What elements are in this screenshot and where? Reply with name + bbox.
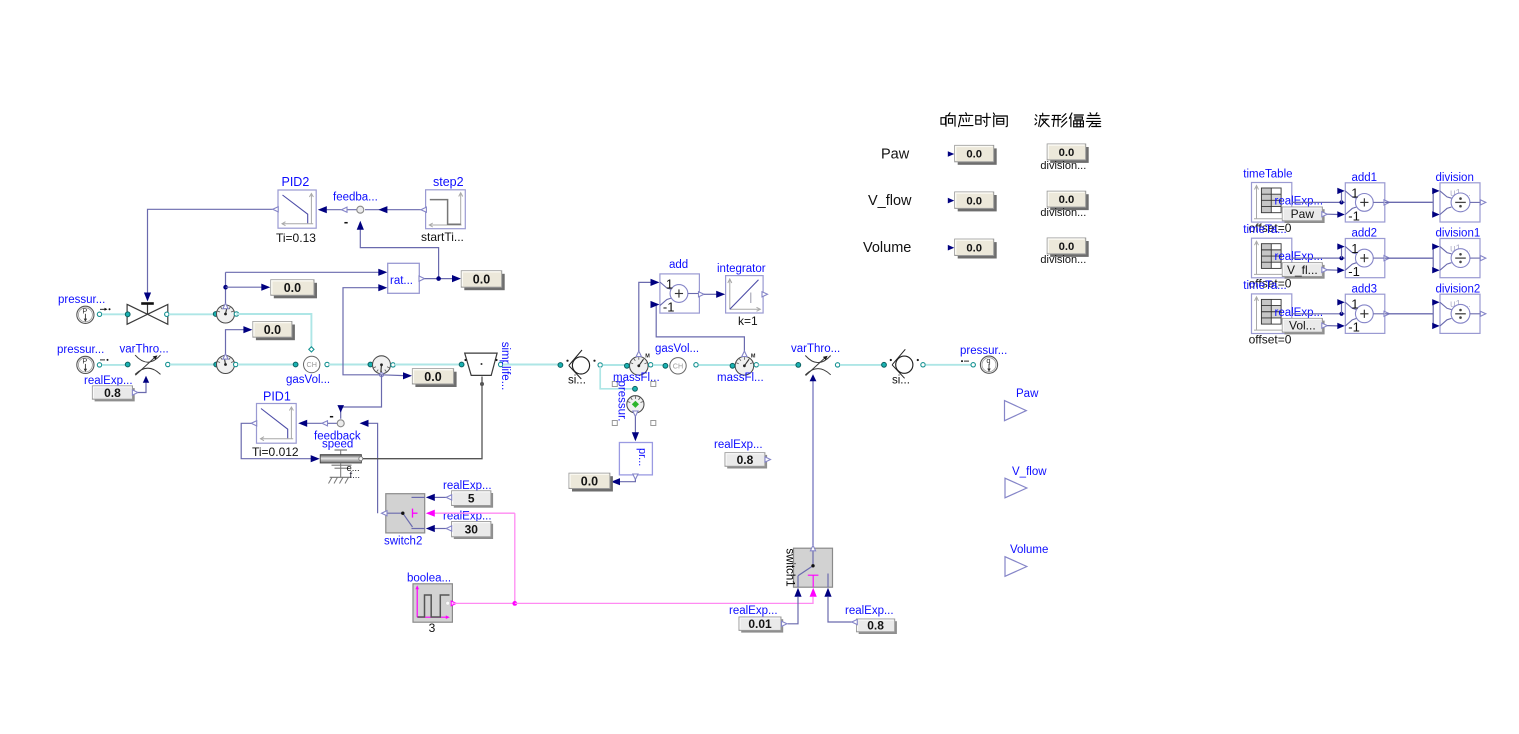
shaft speed to simplife <box>363 377 482 459</box>
port varThroL right <box>166 362 170 366</box>
wire pr to display5 <box>619 480 635 482</box>
svg-text:speed: speed <box>322 439 353 451</box>
wire sensor3 to feedback2 <box>341 375 382 419</box>
svg-text:realExp...: realExp... <box>1275 251 1324 263</box>
op block PID2 <box>278 190 316 228</box>
port division1 output <box>1480 256 1486 261</box>
arrow division2 in2 <box>1432 323 1440 329</box>
wire junction to add1 in1 <box>1341 191 1343 203</box>
port pr output bottom <box>633 474 638 480</box>
wire sensor1 up-branch <box>225 272 227 303</box>
feedback junction feedback1 <box>357 206 364 213</box>
op block PID1 <box>257 404 297 444</box>
check valve si2 <box>896 356 913 373</box>
junction boolean <box>512 601 517 606</box>
mass flow sensor massFl2 <box>735 357 754 376</box>
port name box output row2 <box>1322 267 1328 272</box>
arrow division1 in2 <box>1432 267 1440 273</box>
svg-text:realExp...: realExp... <box>443 511 492 523</box>
arrow division in2 <box>1432 211 1440 217</box>
port si2 left <box>882 362 887 367</box>
wire boolean to switch2 (magenta) <box>434 512 515 514</box>
svg-text:pressur...: pressur... <box>57 344 104 356</box>
display deviation Paw <box>1050 147 1089 163</box>
display response time Volume <box>958 242 997 258</box>
speed support top <box>340 450 342 454</box>
svg-text:k=1: k=1 <box>738 314 758 328</box>
arrow into response display V_flow <box>948 198 955 204</box>
port valve right <box>165 312 169 316</box>
port PID2 output (left) <box>273 207 279 212</box>
port sensor2 right <box>234 362 238 366</box>
svg-text:division: division <box>1436 172 1474 184</box>
port massFl2 left <box>730 363 735 368</box>
pressure source pressur1 <box>77 306 94 323</box>
svg-text:0.0: 0.0 <box>966 195 982 207</box>
port varThroR left <box>796 363 801 368</box>
output connector Volume <box>1005 557 1027 577</box>
svg-text:pressur...: pressur... <box>960 345 1007 357</box>
svg-text:0.8: 0.8 <box>104 386 121 400</box>
wire add3 to division2 <box>1385 313 1433 315</box>
port realExp001 output <box>782 621 788 626</box>
port feedback2 output <box>322 421 328 426</box>
display4 0.0 <box>464 274 504 290</box>
port step2 output (left) <box>421 207 427 212</box>
svg-text:integrator: integrator <box>717 263 766 275</box>
port pressur1 outlet <box>97 312 101 316</box>
port rat output <box>419 276 425 281</box>
svg-text:switch1: switch1 <box>784 548 796 586</box>
wire add1 to division <box>1385 201 1433 203</box>
junction timeTable out row2 <box>1339 256 1343 260</box>
wire feedback1 to PID2 <box>321 209 357 211</box>
port sensor1 right <box>234 312 238 316</box>
add block add1 <box>1345 183 1385 222</box>
valve (on/off) symbol <box>127 304 147 324</box>
svg-text:division...: division... <box>1040 254 1086 266</box>
stub split at division1 <box>1432 247 1434 271</box>
display realExp001 <box>741 619 783 632</box>
port massFl1 top output <box>636 351 641 357</box>
division block division <box>1440 183 1480 222</box>
svg-text:realExp...: realExp... <box>1275 195 1324 207</box>
svg-text:pressur.: pressur. <box>616 381 628 422</box>
svg-text:PID1: PID1 <box>263 390 291 404</box>
svg-text:timeTable: timeTable <box>1243 168 1292 180</box>
wire fluid pressur2-varThroL <box>102 364 126 366</box>
header text 波形偏差 <box>1035 113 1049 127</box>
wire fluid sensor3-simplife <box>395 364 460 366</box>
svg-text:0.0: 0.0 <box>473 273 490 287</box>
display deviation Volume <box>1050 241 1089 257</box>
switch block switch1 <box>794 548 833 587</box>
port sensor2 left <box>214 362 219 367</box>
display name box V_fl... <box>1285 265 1325 279</box>
svg-text:gasVol...: gasVol... <box>286 374 330 386</box>
wire fluid massFl1-gasVol2 <box>653 364 668 366</box>
svg-text:timeTa...: timeTa... <box>1243 224 1286 236</box>
svg-text:V_fl...: V_fl... <box>1287 263 1318 277</box>
gray handle square 1 <box>612 382 617 387</box>
port realExp08R output <box>852 619 858 624</box>
svg-text:M: M <box>751 353 756 359</box>
svg-text:CH: CH <box>673 361 683 370</box>
display realExpL 0.8 <box>95 388 135 401</box>
svg-text:division...: division... <box>1040 207 1086 219</box>
display deviation V_flow <box>1050 194 1089 210</box>
junction timeTable out row3 <box>1339 312 1343 316</box>
wire junction to add3 in1 <box>1341 302 1343 314</box>
svg-text:division...: division... <box>1040 160 1086 172</box>
svg-text:division2: division2 <box>1436 283 1481 295</box>
port switch1 output top <box>810 545 815 551</box>
svg-text:f...: f... <box>350 470 361 481</box>
display5 0.0 <box>572 476 613 491</box>
wire name box to add3 in2 <box>1327 325 1338 327</box>
svg-text:0.8: 0.8 <box>737 453 754 467</box>
port si1 right <box>598 363 602 367</box>
wire boolean to switch1 (magenta) <box>515 597 813 603</box>
port gasVol2 left <box>663 363 668 368</box>
svg-text:simplife...: simplife... <box>499 342 511 391</box>
svg-text:si...: si... <box>892 375 910 387</box>
port pressure sensor bottom output <box>633 411 638 417</box>
port gasVol1 left <box>293 362 298 367</box>
svg-text:q: q <box>986 356 990 365</box>
svg-text:3: 3 <box>429 621 436 635</box>
wire sensor2 to display2 <box>226 330 245 354</box>
gray handle square 4 <box>651 421 656 426</box>
time table block row3 <box>1252 294 1292 334</box>
gray handle square 2 <box>651 382 656 387</box>
time table block row1 <box>1252 183 1292 223</box>
svg-text:V_flow: V_flow <box>1012 466 1047 478</box>
svg-text:realExp...: realExp... <box>729 605 778 617</box>
svg-text:Paw: Paw <box>881 146 910 162</box>
wire fluid varThroL-sensor2 <box>170 364 214 366</box>
svg-text:0.8: 0.8 <box>867 619 884 633</box>
port sensor3 left <box>368 362 373 367</box>
gauge sensor1 <box>217 305 235 323</box>
wire sensor1 to display1 <box>226 286 262 288</box>
svg-text:V_flow: V_flow <box>868 193 912 209</box>
svg-text:1: 1 <box>666 276 673 291</box>
wire switch2 to feedback2 <box>364 423 378 513</box>
arrow into response display Paw <box>948 151 955 157</box>
arrow switch1 in1 <box>794 588 801 597</box>
arrow division1 in1 <box>1432 243 1440 249</box>
junction shaft <box>480 382 484 386</box>
port pressure sensor top <box>633 386 638 391</box>
port add3 output <box>1384 311 1390 316</box>
port realExp5 output <box>446 495 452 500</box>
signal block pr <box>619 443 652 475</box>
port sensor1 top output <box>223 303 228 309</box>
wire sensor3 to rat in2 <box>343 288 382 375</box>
svg-text:0.0: 0.0 <box>1059 147 1075 159</box>
svg-text:1: 1 <box>1351 241 1358 256</box>
wire feedback2 to PID1 <box>302 422 337 424</box>
wire timeTable to division row3 <box>1292 313 1433 315</box>
svg-text:rat...: rat... <box>390 275 413 287</box>
port realExpMid output <box>765 457 771 462</box>
port name box output row3 <box>1322 323 1328 328</box>
wire rat output to display4 <box>425 278 454 280</box>
port gasVol2 right <box>694 363 698 367</box>
svg-text:feedba...: feedba... <box>333 192 378 204</box>
wire junction to add2 in1 <box>1341 247 1343 259</box>
wire massFl2 to add in2 <box>652 305 744 352</box>
svg-text:massFl...: massFl... <box>613 372 660 384</box>
wire massFl1 to add in1 <box>639 282 652 351</box>
svg-text:-: - <box>329 408 333 423</box>
arrow division2 in1 <box>1432 299 1440 305</box>
svg-text:add: add <box>669 259 688 271</box>
wire fluid pressur1-valve <box>102 313 126 315</box>
add block add2 <box>1345 239 1385 278</box>
port massFl1 left <box>625 363 630 368</box>
display realExpMid 0.8 <box>727 455 767 469</box>
add block add3 <box>1345 294 1385 333</box>
svg-text:timeTa...: timeTa... <box>1243 280 1286 292</box>
port integrator output <box>762 292 768 297</box>
switch block switch2 <box>386 494 425 533</box>
port sensor1 left <box>213 312 218 317</box>
gauge sensor3 <box>373 356 391 374</box>
display response time V_flow <box>958 195 997 211</box>
wire name box to add2 in2 <box>1327 269 1338 271</box>
port massFl1 right <box>649 363 653 367</box>
svg-text:massFl...: massFl... <box>717 372 764 384</box>
gray handle square 3 <box>612 421 617 426</box>
specks si1 <box>566 360 568 362</box>
svg-text:Volume: Volume <box>863 240 911 256</box>
port add2 output <box>1384 256 1390 261</box>
port name box output row1 <box>1322 212 1328 217</box>
svg-text:si...: si... <box>568 375 586 387</box>
port simplife left <box>459 362 464 367</box>
wire fluid varThroR-si2 <box>840 364 882 366</box>
display name box Paw <box>1285 209 1325 223</box>
svg-text:30: 30 <box>465 522 479 536</box>
svg-text:Ti=0.012: Ti=0.012 <box>252 445 299 459</box>
port sensor2 top output <box>223 354 228 360</box>
wire realExpL to varThroL <box>138 382 146 393</box>
svg-text:switch2: switch2 <box>384 536 422 548</box>
svg-text:Paw: Paw <box>1016 388 1039 400</box>
svg-text:0.0: 0.0 <box>1059 194 1075 206</box>
port sensor3 right <box>391 363 395 367</box>
wire switch1 to varThroR <box>812 378 814 546</box>
wire fluid si2-pressur3 <box>926 364 972 366</box>
port massFl2 top output <box>742 351 747 357</box>
display1 0.0 <box>274 283 317 299</box>
port realExp30 output <box>446 526 452 531</box>
port si2 right <box>921 363 925 367</box>
port valve left <box>125 312 130 317</box>
display realExp30 <box>454 524 493 539</box>
port add1 output <box>1384 200 1390 205</box>
specks si2 <box>890 359 892 361</box>
wire fluid massFl2-varThroR <box>759 364 797 366</box>
port pressur2 outlet <box>97 363 101 367</box>
svg-text:Vol...: Vol... <box>1289 319 1316 333</box>
stub split at division2 <box>1432 302 1434 326</box>
port pressur3 inlet <box>971 363 975 367</box>
svg-text:-1: -1 <box>1348 208 1360 223</box>
speed support bottom <box>340 463 342 477</box>
svg-text:realExp...: realExp... <box>1275 307 1324 319</box>
svg-text:5: 5 <box>468 491 475 505</box>
wire fluid gasVol2-massFl2 <box>699 364 732 366</box>
svg-text:boolea...: boolea... <box>407 573 451 585</box>
display realExp5 <box>454 493 493 508</box>
port switch2 output <box>382 511 388 516</box>
port gasVol1 right <box>325 362 329 366</box>
svg-text:offset=0: offset=0 <box>1249 332 1292 346</box>
specks simplife <box>464 359 466 361</box>
wire boolean pulse out (magenta) <box>453 602 515 604</box>
port varThroR right <box>835 363 839 367</box>
port PID1 output (left) <box>251 421 257 426</box>
junction rat output <box>436 276 441 281</box>
svg-text:varThro...: varThro... <box>791 343 840 355</box>
header text 响应时间 <box>941 113 955 127</box>
display name box Vol... <box>1285 321 1325 335</box>
svg-text:P: P <box>82 306 87 315</box>
svg-text:add1: add1 <box>1352 172 1378 184</box>
svg-text:add3: add3 <box>1352 283 1378 295</box>
wire sensor1 to ratio in1 <box>226 271 380 273</box>
wire switch2 input3 <box>434 528 449 530</box>
svg-text:division1: division1 <box>1436 228 1481 240</box>
port feedback1 output <box>342 207 348 212</box>
wire fluid valve-sensor1 <box>169 313 214 315</box>
wire timeTable to division row1 <box>1292 201 1433 203</box>
feedback junction feedback2 <box>337 420 344 427</box>
pressure source pressur3 <box>980 356 997 373</box>
port division2 output <box>1480 311 1486 316</box>
arrow add in2 <box>651 301 660 308</box>
wire add2 to division1 <box>1385 257 1433 259</box>
svg-text:0.01: 0.01 <box>748 617 772 631</box>
display3 0.0 <box>415 372 456 387</box>
port realExpL output <box>132 390 138 395</box>
display response time Paw <box>958 148 997 164</box>
time table block row2 <box>1252 238 1292 278</box>
svg-text:0.0: 0.0 <box>966 149 982 161</box>
junction sensor1 tee <box>223 285 228 290</box>
wire fluid gasVol1-sensor3 <box>329 364 369 366</box>
port add output <box>699 292 705 297</box>
gauge sensor2 <box>217 356 235 374</box>
volume gasVol2 CH <box>670 358 686 374</box>
check valve si1 <box>572 357 589 374</box>
svg-text:step2: step2 <box>433 175 464 189</box>
arrow into response display Volume <box>948 245 955 251</box>
svg-text:-1: -1 <box>663 299 675 314</box>
wire pressure sensor to pr <box>634 417 636 434</box>
svg-text:-: - <box>344 214 348 229</box>
mass flow sensor massFl1 <box>630 357 649 376</box>
throttle varThroR <box>805 356 830 363</box>
ground symbol <box>330 476 352 478</box>
math block rat <box>388 263 420 293</box>
svg-text:M: M <box>645 353 650 359</box>
wire sensor3 to display3 <box>382 374 405 377</box>
svg-text:P: P <box>82 356 87 365</box>
port simplife right <box>499 362 503 366</box>
wire PID2 output to valve <box>148 209 273 294</box>
svg-text:CH: CH <box>307 360 317 369</box>
svg-text:0.0: 0.0 <box>264 323 281 337</box>
svg-text:varThro...: varThro... <box>120 344 169 356</box>
wire fluid simplife-si1 <box>503 364 559 366</box>
svg-text:pr...: pr... <box>636 448 648 466</box>
display2 0.0 <box>256 325 295 341</box>
wire step2 to feedback1 <box>365 209 421 211</box>
display realExp08R <box>859 621 897 634</box>
throttle varThroL <box>135 355 160 362</box>
wire add to integrator <box>704 293 718 295</box>
svg-text:0.0: 0.0 <box>284 281 301 295</box>
wire fluid sensor2-gasVol1 <box>238 364 294 366</box>
add block add <box>660 274 700 313</box>
wire switch2 input1 <box>434 496 449 498</box>
arrow switch1 in2 magenta <box>810 588 817 597</box>
svg-text:0.0: 0.0 <box>581 474 598 488</box>
svg-text:-1: -1 <box>1348 264 1360 279</box>
svg-text:realExp...: realExp... <box>845 605 894 617</box>
wire timeTable to division row2 <box>1292 257 1433 259</box>
svg-text:0.0: 0.0 <box>1059 241 1075 253</box>
svg-text:Volume: Volume <box>1010 544 1048 556</box>
division block division1 <box>1440 239 1480 278</box>
wire fluid branch to pressure sensor <box>600 367 633 389</box>
svg-text:add2: add2 <box>1352 228 1378 240</box>
wire PID1 to speed <box>241 423 311 458</box>
svg-text:realExp...: realExp... <box>443 480 492 492</box>
arrow switch1 in3 <box>824 588 831 597</box>
svg-text:0.0: 0.0 <box>966 242 982 254</box>
svg-text:1: 1 <box>1351 185 1358 200</box>
boolean pulse block <box>413 584 452 622</box>
svg-text:PID2: PID2 <box>282 175 310 189</box>
svg-text:startTi...: startTi... <box>421 230 464 244</box>
svg-text:gasVol...: gasVol... <box>655 343 699 355</box>
svg-text:Ti=0.13: Ti=0.13 <box>276 231 316 245</box>
pressure source pressur2 <box>77 356 94 373</box>
lung model simplife <box>465 353 497 375</box>
svg-text:pressur...: pressur... <box>58 294 105 306</box>
port division output <box>1480 200 1486 205</box>
wire fluid si1-massFl1 <box>603 364 626 366</box>
wire ratio output to feedback1 minus <box>360 230 438 279</box>
junction timeTable out row1 <box>1339 200 1343 204</box>
wire realExp001 to switch1 <box>788 597 799 624</box>
svg-text:realExp...: realExp... <box>714 439 763 451</box>
step block step2 <box>426 190 466 229</box>
port gasVol1 top diamond <box>309 347 314 352</box>
svg-text:Paw: Paw <box>1291 207 1315 221</box>
wire boolean vertical (magenta) <box>514 513 516 603</box>
svg-text:-1: -1 <box>1348 320 1360 335</box>
output connector Paw <box>1005 401 1027 421</box>
wire fluid top corner into gasVol1 <box>236 314 311 352</box>
output connector V_flow <box>1005 478 1027 498</box>
port massFl2 right <box>754 363 758 367</box>
